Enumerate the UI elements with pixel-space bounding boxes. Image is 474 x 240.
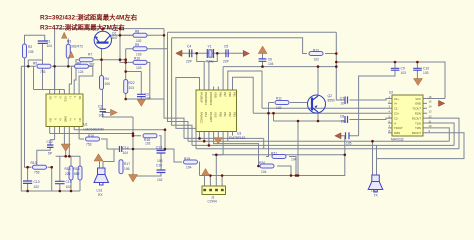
svg-text:P67: P67	[223, 92, 227, 97]
svg-text:R10: R10	[134, 57, 140, 61]
svg-text:C2+: C2+	[394, 112, 399, 116]
svg-text:R17: R17	[124, 162, 130, 166]
svg-text:Y1: Y1	[208, 45, 212, 49]
svg-text:2-: 2-	[54, 96, 58, 98]
svg-text:C8: C8	[340, 115, 344, 119]
svg-text:V+: V+	[394, 102, 398, 106]
svg-text:VCC: VCC	[63, 96, 67, 102]
svg-text:104: 104	[341, 120, 347, 124]
svg-text:C13: C13	[34, 180, 40, 184]
svg-text:R6: R6	[77, 62, 81, 66]
svg-text:R2OUT: R2OUT	[412, 131, 421, 135]
svg-text:P61: P61	[233, 92, 237, 97]
svg-text:R3: R3	[67, 40, 71, 44]
svg-text:102: 102	[276, 106, 282, 110]
svg-text:CON4: CON4	[208, 200, 217, 204]
svg-text:C10: C10	[423, 67, 429, 71]
svg-text:T1IN: T1IN	[415, 121, 421, 125]
svg-text:R5: R5	[33, 62, 37, 66]
svg-text:PA0/VCC: PA0/VCC	[200, 112, 204, 123]
svg-text:10: 10	[429, 124, 432, 128]
svg-text:Q2: Q2	[328, 94, 333, 98]
svg-text:392: 392	[89, 63, 95, 67]
svg-text:V-: V-	[394, 121, 397, 125]
svg-text:C13: C13	[156, 146, 162, 150]
svg-text:R3=392/432:测试距离最大4M左右: R3=392/432:测试距离最大4M左右	[40, 13, 138, 22]
svg-text:15: 15	[429, 100, 432, 104]
svg-text:EM78P153: EM78P153	[229, 136, 245, 140]
svg-text:102: 102	[34, 185, 40, 189]
svg-text:C1+: C1+	[394, 97, 399, 101]
svg-text:P52: P52	[228, 112, 232, 117]
svg-text:105: 105	[28, 50, 34, 54]
svg-text:R22: R22	[129, 81, 135, 85]
svg-text:8550: 8550	[328, 99, 336, 103]
svg-text:R2IN: R2IN	[394, 131, 400, 135]
svg-text:22P: 22P	[186, 60, 193, 64]
svg-text:392/472: 392/472	[71, 45, 83, 49]
svg-text:O2: O2	[49, 96, 53, 100]
svg-text:O4: O4	[78, 118, 82, 122]
svg-text:C19: C19	[66, 180, 72, 184]
svg-text:T1OUT: T1OUT	[412, 107, 421, 111]
svg-text:C9: C9	[401, 67, 405, 71]
svg-text:T2OUT: T2OUT	[394, 126, 403, 130]
svg-text:PA5/OSC3: PA5/OSC3	[209, 92, 213, 105]
svg-text:103: 103	[99, 114, 105, 118]
svg-text:LS1: LS1	[97, 189, 103, 193]
svg-text:103: 103	[129, 86, 135, 90]
svg-text:753: 753	[34, 171, 40, 175]
svg-text:104: 104	[186, 166, 192, 170]
svg-text:16: 16	[429, 95, 432, 99]
svg-text:2+: 2+	[59, 96, 63, 99]
svg-text:RX: RX	[98, 193, 103, 197]
svg-text:C5: C5	[224, 45, 228, 49]
svg-text:3+: 3+	[59, 118, 63, 121]
svg-text:3-: 3-	[54, 118, 58, 120]
svg-text:R16: R16	[88, 134, 94, 138]
svg-text:C14: C14	[123, 146, 129, 150]
svg-text:1-: 1-	[73, 96, 77, 98]
svg-text:R7: R7	[88, 53, 92, 57]
svg-text:104: 104	[261, 170, 267, 174]
svg-text:C1: C1	[47, 40, 51, 44]
svg-text:T2IN: T2IN	[415, 126, 421, 130]
svg-text:C1-: C1-	[394, 107, 398, 111]
svg-text:C4: C4	[187, 45, 191, 49]
svg-text:P66: P66	[218, 92, 222, 97]
svg-text:102: 102	[136, 39, 142, 43]
svg-text:U1: U1	[84, 123, 88, 127]
svg-text:102: 102	[314, 58, 320, 62]
svg-text:GND: GND	[415, 102, 421, 106]
svg-text:103: 103	[423, 71, 429, 75]
svg-text:682: 682	[74, 172, 80, 176]
svg-text:R13: R13	[31, 161, 37, 165]
svg-text:103: 103	[401, 71, 407, 75]
svg-text:753: 753	[40, 70, 46, 74]
svg-text:PA6/OSC1: PA6/OSC1	[204, 92, 208, 105]
svg-text:R8: R8	[135, 30, 139, 34]
svg-text:13: 13	[429, 110, 432, 114]
svg-text:22P: 22P	[223, 60, 230, 64]
svg-text:R9: R9	[135, 43, 139, 47]
svg-text:103: 103	[136, 53, 142, 57]
svg-text:4MHz: 4MHz	[205, 60, 214, 64]
svg-text:102: 102	[66, 185, 72, 189]
svg-text:C2: C2	[98, 105, 102, 109]
svg-text:LMC6482AIM: LMC6482AIM	[84, 128, 104, 132]
svg-text:103: 103	[136, 66, 142, 70]
svg-text:R1IN: R1IN	[415, 112, 421, 116]
svg-text:PA1: PA1	[204, 112, 208, 117]
svg-text:4-: 4-	[73, 118, 77, 120]
svg-text:R12: R12	[313, 49, 319, 53]
svg-text:LS2: LS2	[371, 189, 377, 193]
svg-text:104: 104	[47, 44, 53, 48]
svg-text:102: 102	[145, 97, 151, 101]
svg-text:104: 104	[291, 158, 297, 162]
svg-text:P51: P51	[223, 112, 227, 117]
svg-text:VCC: VCC	[415, 97, 421, 101]
svg-text:P60: P60	[228, 92, 232, 97]
svg-text:VDD: VDD	[214, 92, 218, 98]
svg-text:R2: R2	[28, 45, 32, 49]
svg-text:C12: C12	[47, 140, 53, 144]
svg-text:P53: P53	[233, 112, 237, 117]
svg-text:R4: R4	[105, 77, 109, 81]
svg-text:102: 102	[157, 178, 163, 182]
svg-text:GND: GND	[63, 116, 67, 122]
svg-text:104: 104	[341, 102, 347, 106]
svg-text:C10: C10	[156, 164, 162, 168]
svg-text:Q1: Q1	[112, 32, 117, 36]
svg-text:124: 124	[78, 70, 84, 74]
svg-text:VSS: VSS	[214, 112, 218, 118]
svg-text:R3=472:测试距离最大7M左右: R3=472:测试距离最大7M左右	[40, 22, 125, 31]
svg-text:C2-: C2-	[394, 116, 398, 120]
svg-text:R1OUT: R1OUT	[412, 116, 421, 120]
svg-text:C6: C6	[268, 58, 272, 62]
svg-text:R20: R20	[259, 161, 265, 165]
svg-text:104: 104	[123, 151, 129, 155]
svg-text:R21: R21	[271, 152, 277, 156]
svg-text:R11: R11	[276, 97, 282, 101]
svg-text:PA3/B1P: PA3/B1P	[200, 92, 204, 103]
svg-text:1+: 1+	[68, 96, 72, 99]
svg-text:U3: U3	[237, 132, 241, 136]
svg-text:MAX232: MAX232	[391, 138, 404, 142]
svg-text:100: 100	[105, 82, 111, 86]
svg-text:102: 102	[145, 142, 151, 146]
svg-text:R19: R19	[184, 157, 190, 161]
svg-text:224: 224	[65, 172, 71, 176]
svg-text:4+: 4+	[68, 118, 72, 121]
svg-text:PA4/INT: PA4/INT	[209, 112, 213, 122]
svg-text:12: 12	[429, 114, 432, 118]
svg-text:R14: R14	[65, 167, 71, 171]
svg-text:C7: C7	[340, 97, 344, 101]
svg-text:753: 753	[86, 143, 92, 147]
svg-text:O3: O3	[49, 118, 53, 122]
svg-text:104: 104	[268, 62, 274, 66]
svg-text:P50: P50	[218, 112, 222, 117]
svg-text:R15: R15	[74, 167, 80, 171]
svg-text:106: 106	[124, 167, 130, 171]
svg-text:847: 847	[112, 36, 118, 40]
svg-text:14: 14	[429, 105, 432, 109]
svg-text:O1: O1	[78, 96, 82, 100]
svg-text:U2: U2	[389, 91, 393, 95]
svg-text:103: 103	[157, 159, 163, 163]
svg-text:105: 105	[346, 142, 352, 146]
